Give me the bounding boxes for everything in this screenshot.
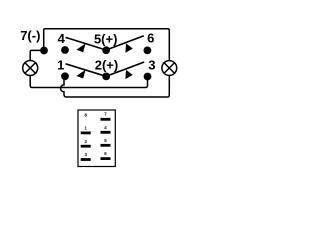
svg-text:5(+): 5(+) xyxy=(94,31,117,46)
arrowhead toward 3 xyxy=(125,70,132,79)
switch blade 5-6 xyxy=(106,36,144,50)
terminal pin 6 xyxy=(144,47,152,55)
connector blade 7 xyxy=(101,118,111,121)
svg-text:2(+): 2(+) xyxy=(95,57,118,72)
terminal pin 7 xyxy=(40,47,48,55)
connector blade 2 xyxy=(81,145,91,148)
wire: right lamp bottom, along bottom, hop over wire, up to pin 1 xyxy=(61,75,170,97)
arrowhead toward 4 xyxy=(76,43,85,52)
lamp DS2 (right) xyxy=(162,61,177,76)
connector body outline xyxy=(78,110,115,167)
arrowhead toward 1 xyxy=(76,70,85,79)
connector blade 4 xyxy=(101,131,111,134)
terminal pin 1 xyxy=(61,72,69,80)
switch blade 2-3 xyxy=(106,62,144,76)
svg-text:3: 3 xyxy=(148,58,155,73)
switch blade 1-2 xyxy=(66,64,106,77)
terminal pin 4 xyxy=(61,46,69,54)
svg-text:7(-): 7(-) xyxy=(20,28,40,43)
connector blade 6 xyxy=(101,157,111,160)
lamp DS1 (left) xyxy=(23,61,38,76)
terminal pin 2 xyxy=(102,73,110,81)
wire: left lamp bottom, along y=87, up to pin 3 xyxy=(30,76,147,88)
connector blade 5 xyxy=(101,144,111,147)
svg-text:1: 1 xyxy=(57,58,64,73)
switch blade 4-5 xyxy=(66,37,106,50)
svg-text:4: 4 xyxy=(58,31,66,46)
connector blade 1 xyxy=(81,132,91,135)
terminal pin 3 xyxy=(144,73,152,81)
terminal pin 5 xyxy=(102,46,110,54)
wire: pin 7 left and down to left lamp xyxy=(30,50,44,60)
arrowhead toward 6 xyxy=(125,43,132,52)
wire: pin 7 up, along top, down to right lamp xyxy=(44,29,170,61)
svg-text:6: 6 xyxy=(147,30,154,45)
connector blade 3 xyxy=(81,158,91,161)
